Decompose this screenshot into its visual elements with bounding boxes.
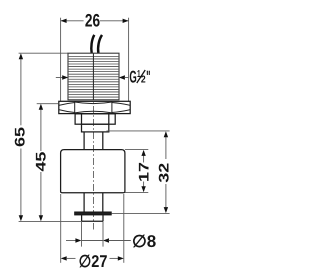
dimension diameter 8 line: [66, 238, 131, 242]
svg-text:32: 32: [156, 163, 172, 183]
svg-text:∅8: ∅8: [132, 232, 156, 251]
dimension 26 line: [61, 19, 129, 23]
threaded cap body G1/2: [68, 53, 119, 100]
dimension 32 line: [164, 131, 168, 213]
diameter 8 extension lines: [81, 222, 83, 247]
svg-text:": ": [146, 67, 150, 86]
svg-text:G: G: [129, 67, 136, 86]
svg-text:45: 45: [33, 151, 49, 171]
svg-text:26: 26: [85, 11, 100, 31]
dimension diameter 27 line: [61, 256, 124, 260]
hex nut: [59, 101, 130, 113]
float: [61, 150, 125, 193]
float bottom extension line: [125, 192, 148, 194]
G1/2 leader right arrow: [119, 75, 128, 79]
diameter 27 extension lines: [60, 194, 62, 263]
wire 2: [98, 35, 102, 54]
dimension 17 line: [141, 150, 145, 192]
dimension 45 extension line: [37, 103, 59, 105]
retaining washer: [75, 212, 112, 215]
G1/2 leader left arrow: [56, 75, 68, 79]
65 top extension line: [19, 52, 68, 54]
step bottom extension line for 32: [107, 130, 170, 132]
wire 1: [91, 35, 94, 54]
dimension 45 line: [39, 104, 43, 221]
rod lower: [84, 193, 103, 212]
float top extension line: [125, 148, 148, 150]
svg-text:∅27: ∅27: [79, 252, 108, 271]
dimension 65 line: [19, 53, 23, 221]
svg-text:65: 65: [12, 127, 28, 147]
32 baseline extension: [111, 212, 169, 214]
end stop: [82, 215, 103, 221]
step bushing: [82, 124, 109, 132]
centerline: [92, 54, 94, 230]
dimension 26 extension lines: [60, 18, 62, 101]
bottom baseline for 65 and 45: [19, 220, 82, 222]
svg-text:17: 17: [136, 162, 152, 182]
collar: [75, 114, 115, 124]
rod upper: [84, 132, 103, 150]
